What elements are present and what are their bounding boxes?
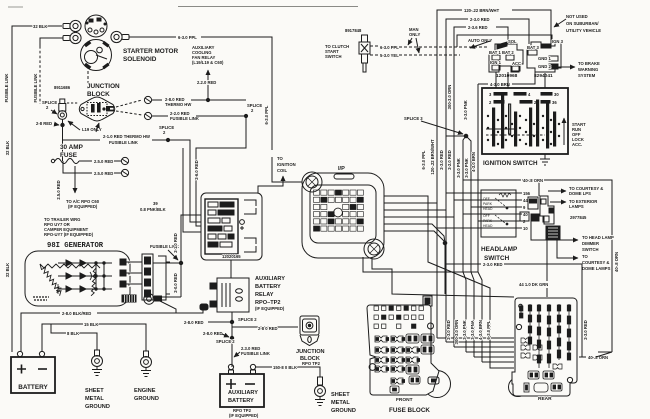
svg-text:2-2.0 RED: 2-2.0 RED — [447, 150, 452, 170]
front fuse block lobe slot — [428, 377, 439, 384]
svg-text:39: 39 — [153, 201, 158, 206]
svg-text:12010968: 12010968 — [496, 73, 518, 79]
svg-text:GND 2: GND 2 — [538, 64, 551, 69]
ignition switch ground — [540, 154, 550, 165]
svg-text:2-8.0 BLK/RED: 2-8.0 BLK/RED — [62, 311, 91, 316]
svg-text:2-8 RED: 2-8 RED — [36, 121, 52, 126]
svg-text:(L19/L19 & C60): (L19/L19 & C60) — [192, 60, 224, 65]
wire splice to junction block rpo tp2 — [232, 326, 298, 328]
svg-text:SHEET: SHEET — [85, 388, 104, 394]
wire IP to 2-3.0 RED vertical — [384, 209, 446, 211]
svg-text:STARTER MOTOR: STARTER MOTOR — [123, 48, 179, 55]
wire fusible link left — [40, 38, 63, 46]
headlamp switch internals — [483, 193, 511, 228]
rear fuse block outline — [512, 298, 577, 396]
wire to A/C arrow — [74, 166, 76, 193]
svg-text:2-3.0 RED: 2-3.0 RED — [483, 262, 503, 267]
connector 8294041 body — [527, 42, 561, 72]
wire thermo hw to center connector — [152, 99, 162, 101]
wire 120-.22 BRN/WHT top — [437, 10, 462, 19]
generator terminals right edge — [120, 259, 126, 265]
connector 12020165 outline — [201, 193, 262, 260]
wire IP to 6-3.0 PPL vertical — [384, 196, 428, 252]
wire IP splice curve — [384, 224, 445, 243]
junction block body — [79, 97, 115, 121]
connector I/P cell grid — [314, 190, 364, 231]
svg-text:8917848: 8917848 — [345, 28, 362, 33]
wire bundle vertical 2-2.0 RED — [453, 35, 455, 347]
svg-text:DOME LPS: DOME LPS — [569, 191, 591, 196]
svg-text:40: 40 — [523, 212, 528, 217]
svg-text:2-8.0 RED: 2-8.0 RED — [203, 331, 223, 336]
svg-text:6-3.0 PPL: 6-3.0 PPL — [421, 150, 426, 169]
svg-text:4-3.0 BRN: 4-3.0 BRN — [490, 82, 510, 87]
connector I/P top tab — [334, 174, 354, 179]
wire fuse to terminal row2 — [63, 161, 92, 173]
headlamp connector 2977845 — [520, 196, 560, 240]
svg-text:40-.8 ORN: 40-.8 ORN — [614, 252, 619, 272]
svg-text:REAR: REAR — [538, 396, 552, 402]
svg-text:36: 36 — [552, 100, 557, 105]
svg-text:IGNITION: IGNITION — [277, 162, 296, 167]
svg-text:SHEET: SHEET — [331, 392, 350, 398]
svg-text:4-3.0 BRN: 4-3.0 BRN — [471, 152, 476, 172]
svg-text:30: 30 — [554, 92, 559, 97]
wire 150-8.0 BLK to ground — [256, 366, 272, 368]
terminal ring 2 — [63, 32, 81, 43]
svg-text:BAT 1 BAT 2: BAT 1 BAT 2 — [489, 50, 514, 55]
wire IP to 120 BRN/WHT vertical — [384, 202, 437, 204]
headlamp switch box — [481, 190, 516, 237]
svg-text:IGN 1: IGN 1 — [490, 60, 502, 65]
svg-text:FUSIBLE LINK: FUSIBLE LINK — [4, 74, 9, 103]
svg-text:DIMMER: DIMMER — [582, 241, 599, 246]
wire generator output to vertical 2-1.0 RED — [153, 262, 181, 264]
svg-text:BATTERY: BATTERY — [18, 384, 48, 391]
rear fuse block bottom row — [524, 371, 562, 392]
wire line4 top — [457, 35, 552, 47]
svg-text:JUNCTION: JUNCTION — [87, 83, 120, 90]
wire splice2 node to fuse — [62, 119, 64, 161]
svg-text:(IF EQUIPPED): (IF EQUIPPED) — [68, 204, 98, 209]
generator output stud ring — [144, 294, 162, 304]
sheet metal ground symbol — [92, 350, 103, 376]
svg-text:2-8 0 RED: 2-8 0 RED — [258, 326, 278, 331]
wire headlamp pins to bundle — [446, 192, 516, 194]
svg-text:6-3.0 PPL: 6-3.0 PPL — [264, 105, 269, 124]
svg-text:BAT 3: BAT 3 — [527, 45, 539, 50]
ignition switch box — [482, 88, 568, 154]
svg-text:COIL: COIL — [277, 168, 287, 173]
auxiliary battery body — [220, 374, 264, 407]
wire fuse to terminal row1 — [79, 160, 92, 162]
svg-text:SWITCH: SWITCH — [484, 255, 510, 262]
wire ppl diagonal to rear — [428, 252, 514, 368]
svg-text:HEAD: HEAD — [483, 224, 493, 228]
svg-text:120-.22 BRN/WHT: 120-.22 BRN/WHT — [430, 139, 435, 175]
svg-text:FUSIBLE LINK: FUSIBLE LINK — [170, 116, 199, 121]
rear fuse block mount holes — [519, 304, 523, 308]
svg-text:BATTERY: BATTERY — [228, 398, 254, 404]
wire dashed bulb to diamond — [67, 102, 79, 104]
svg-text:40-.8 ORN: 40-.8 ORN — [588, 355, 608, 360]
junction block rpo tp2 body — [300, 316, 319, 346]
front fuse block outline — [367, 305, 439, 395]
svg-text:30 AMP: 30 AMP — [60, 144, 84, 151]
battery — [11, 357, 55, 393]
svg-text:BATTERY: BATTERY — [255, 284, 281, 290]
front fuse block lobe — [424, 371, 451, 398]
svg-text:3-3.0 PNK: 3-3.0 PNK — [456, 158, 461, 178]
svg-text:OFF: OFF — [483, 214, 490, 218]
wire 2-2.0 red to center connector — [183, 148, 201, 232]
terminal circle row2 — [121, 169, 128, 176]
svg-text:FUSIBLE LINK: FUSIBLE LINK — [33, 74, 38, 103]
ignition switch position arrow — [563, 118, 565, 145]
svg-text:SWITCH: SWITCH — [582, 247, 599, 252]
label to exterior lamps — [550, 201, 566, 203]
wire 2.2.0 RED to fan relay — [207, 70, 209, 100]
terminal ring 1 — [63, 20, 81, 31]
wire stud to 2-0.0 RED vertical — [161, 296, 181, 298]
wire bundle vertical 120 BRN/WHT — [436, 19, 438, 338]
svg-text:IGNITION SWITCH: IGNITION SWITCH — [483, 160, 538, 167]
wire 15 BLK — [42, 324, 83, 352]
svg-text:3-3.0 PNA: 3-3.0 PNA — [470, 320, 475, 340]
svg-text:2.5.0 RED: 2.5.0 RED — [94, 159, 113, 164]
splice node IP — [443, 241, 447, 245]
svg-text:300-3.0 ORN: 300-3.0 ORN — [447, 85, 452, 110]
svg-text:GND 1: GND 1 — [538, 56, 551, 61]
svg-text:COURTESY &: COURTESY & — [582, 260, 609, 265]
wire 2-8.0 BLK/RED battery to generator — [21, 313, 60, 352]
svg-text:3-3.0 PNK: 3-3.0 PNK — [464, 158, 469, 178]
front fuse block mount holes — [369, 364, 376, 371]
svg-text:2.5.0 RED: 2.5.0 RED — [94, 171, 113, 176]
svg-text:8911686: 8911686 — [54, 85, 71, 90]
svg-text:4-3.0 BRN: 4-3.0 BRN — [478, 320, 483, 340]
wire to brake warning system — [558, 66, 575, 68]
svg-text:SYSTEM: SYSTEM — [578, 73, 596, 78]
svg-text:120-.22 BRN/WHT: 120-.22 BRN/WHT — [464, 8, 500, 13]
wire stubs connector to ignition switch — [495, 72, 497, 88]
svg-text:DOME LAMPS: DOME LAMPS — [582, 266, 611, 271]
svg-text:GROUND: GROUND — [134, 396, 159, 402]
wire 2-3.6 RED top — [454, 27, 466, 35]
svg-text:TO BRAKE: TO BRAKE — [578, 61, 600, 66]
terminal circle-plus B — [144, 112, 151, 119]
svg-text:3-3.0 PNK: 3-3.0 PNK — [462, 320, 467, 340]
svg-text:2.2.0 RED: 2.2.0 RED — [197, 80, 216, 85]
svg-text:METAL: METAL — [85, 396, 104, 402]
svg-text:44 1.0 DK GRN: 44 1.0 DK GRN — [519, 282, 548, 287]
label to courtesy dome lps — [548, 190, 566, 192]
svg-text:2-3.0 RED: 2-3.0 RED — [583, 320, 588, 340]
svg-text:32 BLK: 32 BLK — [33, 24, 47, 29]
svg-text:2-3.6 RED: 2-3.6 RED — [468, 25, 488, 30]
starter motor solenoid body — [81, 40, 112, 71]
svg-text:2-6.0 RED: 2-6.0 RED — [194, 160, 199, 180]
svg-text:SPLICE 2: SPLICE 2 — [216, 339, 235, 344]
fuse element — [55, 159, 79, 164]
svg-text:(IF EQUIPPED): (IF EQUIPPED) — [229, 413, 259, 418]
svg-text:12020165: 12020165 — [222, 254, 241, 259]
wire 2-3.0 RED top — [446, 19, 468, 27]
rear fuse block inner fuses — [521, 338, 562, 369]
svg-text:FUSIBLE LINK: FUSIBLE LINK — [241, 351, 270, 356]
label to courtesy and dome lamps — [557, 240, 578, 258]
svg-text:6-3.0 PPL: 6-3.0 PPL — [486, 320, 491, 339]
wire 2-3.0 RED branch to rear block — [446, 263, 481, 265]
svg-text:TO: TO — [582, 254, 588, 259]
wire IP lower stub — [384, 231, 444, 241]
rear fuse block ladder columns — [520, 304, 571, 368]
svg-text:HEADLAMP: HEADLAMP — [481, 246, 518, 253]
svg-text:150-8 0 BLK: 150-8 0 BLK — [273, 365, 297, 370]
svg-text:RPO TP2: RPO TP2 — [302, 361, 321, 366]
svg-text:ENGINE: ENGINE — [134, 388, 156, 394]
ignition switch contact bars — [493, 96, 556, 148]
wire 40-.8 ORN top — [522, 180, 539, 196]
connector 12020165 right brackets — [244, 200, 256, 214]
svg-text:5-3.0 YEL: 5-3.0 YEL — [380, 53, 399, 58]
generator ground hatch — [33, 297, 49, 300]
svg-text:FUSE: FUSE — [60, 152, 78, 159]
svg-text:HEAD: HEAD — [483, 207, 493, 211]
battery terminals — [17, 351, 22, 356]
wire relay to splice 2 — [231, 312, 233, 367]
wire IP bottom right to rear block — [372, 257, 514, 297]
connector I/P boss bottom-right — [364, 239, 384, 259]
wire 8 BLK — [51, 324, 66, 333]
sheet metal ground 2 symbol — [315, 377, 326, 406]
svg-text:RELAY: RELAY — [255, 292, 274, 298]
ignition switch dashed slider line — [486, 134, 545, 136]
svg-text:THERMO HW: THERMO HW — [165, 102, 191, 107]
svg-text:2-8.0 RED: 2-8.0 RED — [184, 320, 204, 325]
svg-text:L19 ONLY: L19 ONLY — [82, 127, 102, 132]
generator stubs to connector strip — [126, 261, 142, 263]
fusible link cartridge — [58, 99, 67, 119]
svg-text:JUNCTION: JUNCTION — [296, 349, 325, 355]
starter motor solenoid upper cap — [85, 15, 107, 37]
svg-text:32 BLK: 32 BLK — [5, 263, 10, 277]
label to head lamp dimmer switch — [560, 239, 578, 241]
svg-text:IGN 3: IGN 3 — [552, 39, 564, 44]
svg-text:6-3.0 PPL: 6-3.0 PPL — [178, 35, 197, 40]
wire 6-3.0 PPL from solenoid terminal to I/P — [129, 36, 176, 38]
svg-text:FUSIBLE LINK: FUSIBLE LINK — [109, 140, 138, 145]
aux battery terminals — [228, 364, 233, 369]
svg-text:METAL: METAL — [331, 400, 350, 406]
wire stud diagonal to blk/red — [160, 301, 176, 313]
clutch start switch — [359, 35, 370, 72]
connector I/P boss top-left — [302, 172, 322, 192]
svg-text:ACC.: ACC. — [572, 142, 582, 147]
wire fusible link to center connector — [152, 115, 168, 117]
svg-text:AUTO ONLY: AUTO ONLY — [468, 38, 492, 43]
svg-text:LAMPS: LAMPS — [569, 204, 584, 209]
wire 44 DK GRN from headlamp connector down — [531, 221, 547, 281]
generator inner ground — [55, 284, 62, 293]
connector 12010968 body — [489, 42, 523, 72]
generator diode bridge — [58, 260, 112, 292]
connector I/P shell — [302, 173, 384, 258]
svg-text:8294041: 8294041 — [534, 73, 553, 79]
front fuse block fuse rows — [375, 334, 434, 393]
terminal circle-plus A — [144, 96, 151, 103]
svg-text:UTILITY VEHICLE: UTILITY VEHICLE — [566, 28, 601, 33]
svg-text:156: 156 — [523, 191, 531, 196]
svg-text:GROUND: GROUND — [85, 404, 110, 410]
svg-text:AUXILIARY: AUXILIARY — [228, 390, 258, 396]
wire 3-3.0 PNK a — [463, 136, 466, 352]
wire 2-1.0 RED thermo hw fusible link — [63, 139, 100, 141]
svg-text:TO HEAD LAMP: TO HEAD LAMP — [582, 235, 614, 240]
wire bundle bends into rear block — [437, 337, 514, 339]
svg-text:2-3.0 RED: 2-3.0 RED — [470, 17, 490, 22]
engine ground symbol — [141, 351, 152, 377]
generator ribbed stud — [122, 295, 136, 302]
wire IP bottom to brn bundle — [363, 257, 478, 272]
terminal circle row1 — [121, 157, 128, 164]
svg-text:NOT USED: NOT USED — [566, 14, 588, 19]
svg-text:8 BLK: 8 BLK — [67, 331, 79, 336]
svg-text:15 BLK: 15 BLK — [84, 322, 98, 327]
generator connector strip — [142, 254, 153, 300]
svg-text:3-3.0 PNK: 3-3.0 PNK — [463, 100, 468, 120]
terminal ring 3 — [111, 31, 129, 42]
wire 40 orn into rear block — [598, 351, 612, 353]
svg-text:2.5.0 RED: 2.5.0 RED — [56, 180, 61, 199]
wire dashed 6-3.0 PPL — [370, 45, 378, 47]
connector 12020165 terminal grid — [205, 199, 238, 254]
svg-text:(IF EQUIPPED): (IF EQUIPPED) — [255, 306, 285, 311]
generator connector bracket — [158, 256, 170, 300]
ignition switch top pins row — [489, 92, 559, 105]
front fuse block terminal grid — [374, 306, 423, 328]
svg-text:GROUND: GROUND — [331, 408, 356, 414]
svg-text:SPLICE 2: SPLICE 2 — [238, 317, 257, 322]
wire to ignition coil — [258, 176, 283, 193]
svg-text:ONLY: ONLY — [409, 32, 420, 37]
wire bundle vertical 2-3.0 RED — [445, 27, 447, 342]
svg-text:2-0.0 RED: 2-0.0 RED — [173, 273, 178, 293]
wire connector to relay — [230, 260, 232, 278]
rear fuse block lobe — [509, 378, 528, 397]
svg-text:6-3.0 PPL: 6-3.0 PPL — [380, 45, 399, 50]
svg-text:ON SUBURBAN/: ON SUBURBAN/ — [566, 21, 599, 26]
svg-text:SOL: SOL — [508, 39, 517, 44]
svg-text:SPLICE: SPLICE — [42, 100, 57, 105]
svg-text:300-3.0 ORN: 300-3.0 ORN — [454, 320, 459, 345]
wire dashed junction to terminal A — [116, 100, 142, 107]
top border wire — [8, 6, 23, 8]
svg-text:WARNING: WARNING — [578, 67, 598, 72]
svg-text:32 BLK: 32 BLK — [5, 141, 10, 155]
headlamp switch pin stubs — [516, 191, 531, 231]
svg-text:TO: TO — [277, 156, 283, 161]
svg-text:I/P: I/P — [338, 166, 345, 172]
svg-text:2-3.0 RED: 2-3.0 RED — [439, 150, 444, 170]
connector I/P inner shell — [310, 185, 376, 243]
wire dashed 5-3.0 YEL — [370, 54, 378, 56]
front fuse block top-right tab — [423, 296, 432, 306]
svg-text:SPLICE: SPLICE — [159, 125, 174, 130]
svg-text:2-1.0 RED: 2-1.0 RED — [173, 233, 178, 253]
svg-text:SPLICE: SPLICE — [247, 103, 262, 108]
wire 3-3.0 PNK b — [466, 136, 474, 357]
generator 98I body — [25, 251, 130, 306]
svg-text:FUSE BLOCK: FUSE BLOCK — [389, 407, 430, 414]
generator stator delta winding — [40, 264, 100, 296]
auxiliary battery relay body — [210, 278, 249, 312]
svg-text:40-.8 ORN: 40-.8 ORN — [523, 178, 543, 183]
wire 4-3.0 BRN under connectors — [478, 83, 488, 85]
wire 32 BLK battery feed — [12, 26, 62, 352]
svg-text:98I GENERATOR: 98I GENERATOR — [47, 242, 104, 250]
svg-text:FRONT: FRONT — [396, 397, 413, 403]
svg-text:2-3.0 RED: 2-3.0 RED — [446, 320, 451, 340]
svg-text:ACC: ACC — [512, 61, 521, 66]
svg-text:SOLENOID: SOLENOID — [123, 56, 157, 63]
svg-text:PARK: PARK — [483, 202, 493, 206]
ignition switch contact dots — [487, 115, 560, 145]
svg-text:RPO-UY7 (IF EQUIPPED): RPO-UY7 (IF EQUIPPED) — [44, 232, 94, 237]
svg-text:SPLICE 3: SPLICE 3 — [404, 116, 423, 121]
svg-text:AUXILIARY: AUXILIARY — [255, 276, 285, 282]
wire dashed solenoid to junction block — [87, 71, 89, 96]
svg-text:SWITCH: SWITCH — [325, 54, 342, 59]
svg-text:0.8 PNK/BLK: 0.8 PNK/BLK — [140, 207, 166, 212]
wire IP to 2-2.0 RED vertical — [384, 216, 454, 218]
wire 2-8.0 RED from generator stud — [208, 321, 232, 323]
svg-text:10: 10 — [523, 226, 528, 231]
svg-text:2977845: 2977845 — [570, 215, 587, 220]
svg-text:2-1.0 RED THERMO HW: 2-1.0 RED THERMO HW — [103, 134, 150, 139]
